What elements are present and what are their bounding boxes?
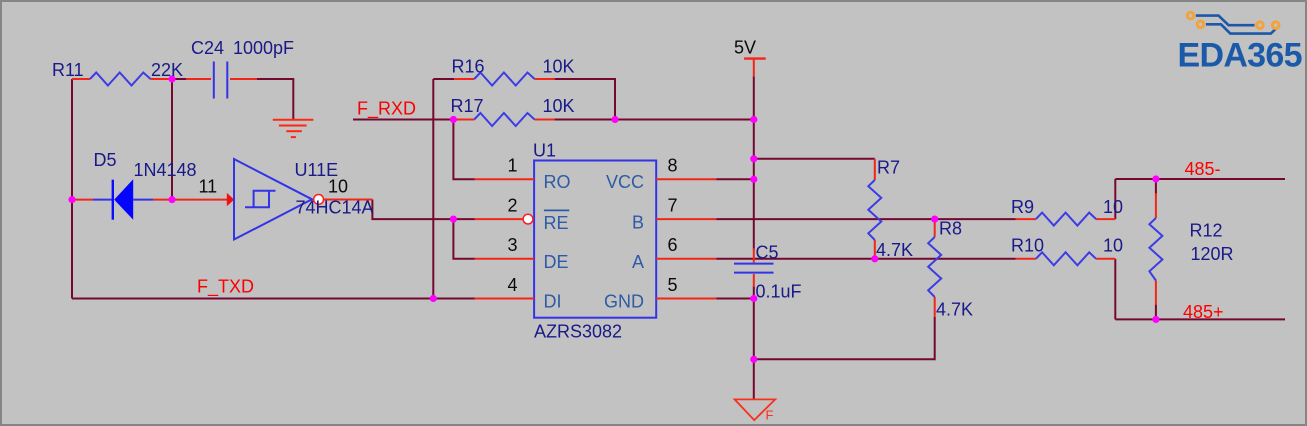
pin 6 A	[656, 258, 716, 260]
svg-text:F_TXD: F_TXD	[197, 277, 254, 298]
resistor R7 vertical	[868, 159, 881, 259]
svg-text:R11: R11	[52, 60, 84, 80]
svg-text:A: A	[632, 252, 644, 272]
svg-text:6: 6	[668, 235, 678, 255]
wire ground stem	[753, 359, 755, 399]
svg-text:R7: R7	[877, 158, 900, 178]
svg-text:1N4148: 1N4148	[134, 160, 197, 180]
svg-text:120R: 120R	[1191, 244, 1234, 264]
svg-text:10: 10	[1103, 197, 1123, 217]
wire R10 to 485+ corner	[1114, 259, 1116, 320]
svg-text:F_RXD: F_RXD	[357, 99, 416, 120]
svg-text:D5: D5	[94, 150, 117, 170]
junction R17 left	[450, 116, 457, 123]
wire VCC to 5V rail	[716, 178, 754, 180]
logo pad 1	[1187, 12, 1194, 19]
svg-text:4.7K: 4.7K	[936, 300, 973, 320]
svg-text:10K: 10K	[543, 57, 575, 77]
pin 1 RO	[475, 178, 535, 180]
resistor R17	[453, 113, 554, 126]
junction R12 top	[1152, 175, 1159, 182]
logo pad 2	[1197, 21, 1204, 28]
svg-text:5: 5	[668, 275, 678, 295]
diode D5 1N4148	[72, 179, 172, 219]
svg-text:B: B	[632, 213, 644, 233]
input arrow at U11E pin 11	[227, 193, 234, 206]
resistor R9	[1016, 213, 1116, 226]
resistor R10	[1016, 252, 1116, 265]
junction F_TXD at R16 drop	[430, 295, 437, 302]
wire F_TXD to R16 vertical	[432, 79, 434, 299]
wire R9 to 485- corner	[1114, 179, 1116, 219]
wire 22K junction to C24	[172, 78, 188, 80]
wire F_RXD row	[353, 119, 453, 121]
svg-text:VCC: VCC	[606, 172, 644, 192]
pin 8 VCC	[656, 178, 716, 180]
wire U11E output jog	[372, 200, 453, 220]
wire 5V rail upper	[753, 76, 755, 250]
wire bottom row to R8	[754, 317, 935, 359]
resistor R8 vertical	[928, 219, 941, 317]
wire U11E output pin 10	[324, 199, 373, 201]
svg-text:10K: 10K	[543, 96, 575, 116]
svg-text:R16: R16	[452, 57, 485, 77]
svg-text:1000pF: 1000pF	[233, 38, 294, 58]
resistor R11	[72, 73, 172, 86]
wire DE connection	[453, 219, 474, 259]
svg-text:U1: U1	[533, 141, 556, 161]
svg-text:8: 8	[668, 156, 678, 176]
wire 5V rail below C5	[753, 286, 755, 359]
svg-text:11: 11	[199, 177, 218, 197]
svg-text:RE: RE	[544, 213, 569, 233]
junction RE/DE node	[450, 216, 457, 223]
svg-text:2: 2	[507, 195, 517, 215]
svg-text:R9: R9	[1011, 197, 1034, 217]
svg-text:DE: DE	[544, 252, 569, 272]
junction GND row at 5V vertical	[750, 295, 757, 302]
wire RE stub	[453, 218, 474, 220]
svg-text:485+: 485+	[1183, 302, 1224, 322]
svg-text:C5: C5	[756, 243, 779, 263]
wire F_TXD row	[72, 298, 475, 300]
wire A row to R10	[716, 258, 1016, 260]
svg-text:DI: DI	[544, 292, 562, 312]
svg-text:GND: GND	[604, 292, 644, 312]
junction R16/R17 right	[611, 116, 618, 123]
wire RO connection	[453, 120, 474, 180]
svg-text:4.7K: 4.7K	[876, 240, 913, 260]
pin 3 DE	[475, 258, 535, 260]
wire 5V to R7 top	[754, 158, 875, 160]
power ground F	[735, 399, 776, 420]
logo pad 3	[1257, 22, 1264, 29]
capacitor C5	[734, 248, 774, 287]
wire 485+ row	[1115, 318, 1285, 320]
wire vertical 22K to D5 row	[171, 79, 173, 200]
logo pad 4	[1272, 22, 1279, 29]
resistor R12 vertical	[1149, 193, 1162, 305]
svg-text:485-: 485-	[1185, 159, 1221, 179]
pin 4 DI	[475, 298, 535, 300]
power port 5V	[744, 59, 766, 77]
svg-text:10: 10	[1103, 236, 1123, 256]
svg-text:7: 7	[668, 195, 678, 215]
svg-text:AZRS3082: AZRS3082	[534, 322, 622, 342]
junction 5V at F_RXD row	[750, 116, 757, 123]
resistor R16	[454, 73, 554, 86]
wire left vertical bus x=72	[71, 79, 73, 299]
svg-text:22K: 22K	[151, 60, 183, 80]
junction D5 left	[68, 196, 75, 203]
wire R12 lower stub	[1155, 304, 1157, 319]
svg-text:R10: R10	[1011, 236, 1044, 256]
svg-text:R17: R17	[451, 96, 484, 116]
wire GND pin to 5V vertical	[716, 298, 754, 300]
wire 485- row	[1115, 178, 1285, 180]
wire C24 right to ground drop	[256, 79, 293, 119]
op-amp U11E 74HC14A schmitt inverter	[234, 159, 324, 240]
wire input to U11E	[172, 199, 228, 201]
svg-text:R8: R8	[939, 219, 962, 239]
svg-text:F: F	[766, 408, 774, 423]
wire R17 right to 5V rail	[555, 119, 754, 121]
svg-text:3: 3	[507, 235, 517, 255]
wire R16 left corner	[433, 78, 454, 80]
capacitor C24	[186, 62, 257, 99]
junction R8 top at B row	[931, 216, 938, 223]
svg-text:74HC14A: 74HC14A	[296, 197, 374, 217]
RE overline	[544, 209, 569, 211]
wire B row to R9	[716, 218, 1016, 220]
svg-text:C24: C24	[191, 38, 224, 58]
IC U1 AZRS3082	[475, 161, 717, 318]
junction 5V to R7 row	[750, 155, 757, 162]
svg-text:RO: RO	[544, 172, 571, 192]
svg-text:EDA365: EDA365	[1178, 36, 1302, 74]
junction R7 bottom at A row	[871, 255, 878, 262]
svg-text:R12: R12	[1190, 221, 1223, 241]
junction 22K node	[168, 75, 175, 82]
junction D5 right	[168, 196, 175, 203]
pin 7 B	[656, 218, 716, 220]
junction bottom row	[750, 356, 757, 363]
ground for C24	[273, 120, 314, 137]
pin 5 GND	[656, 298, 716, 300]
wire R12 upper stub	[1155, 179, 1157, 195]
junction 5V at VCC row	[750, 176, 757, 183]
wire R16 right drop to R17	[555, 79, 615, 120]
junction R12 bottom	[1152, 316, 1159, 323]
svg-text:1: 1	[507, 156, 517, 176]
svg-text:0.1uF: 0.1uF	[756, 282, 802, 302]
logo trace 2	[1206, 24, 1276, 33]
logo trace 1	[1196, 16, 1255, 26]
svg-text:4: 4	[507, 275, 517, 295]
svg-text:10: 10	[328, 177, 348, 197]
pin 2 RE	[475, 218, 523, 220]
svg-text:5V: 5V	[734, 38, 756, 58]
